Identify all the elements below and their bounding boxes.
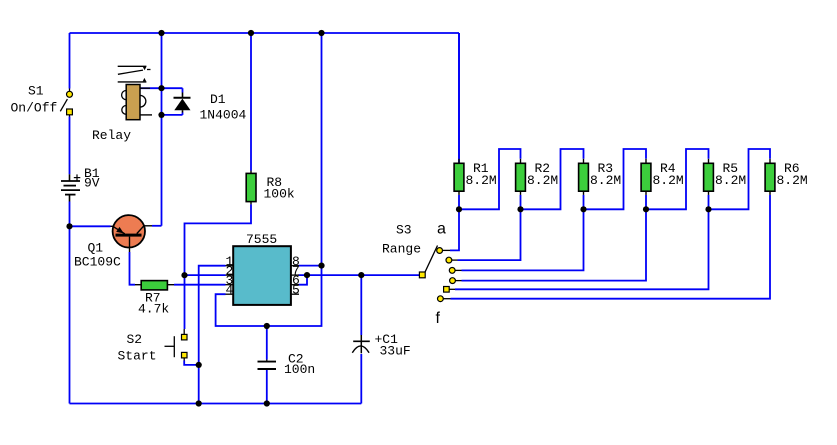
svg-text:BC109C: BC109C: [74, 255, 121, 270]
svg-text:9V: 9V: [84, 176, 100, 191]
svg-text:8.2M: 8.2M: [466, 173, 497, 188]
svg-text:8.2M: 8.2M: [777, 173, 808, 188]
svg-text:8.2M: 8.2M: [715, 173, 746, 188]
svg-text:8.2M: 8.2M: [590, 173, 621, 188]
svg-text:8.2M: 8.2M: [527, 173, 558, 188]
svg-text:Start: Start: [118, 349, 157, 364]
svg-text:Relay: Relay: [92, 128, 131, 143]
svg-text:100n: 100n: [284, 362, 315, 377]
svg-text:5: 5: [292, 283, 300, 298]
svg-text:Range: Range: [382, 242, 421, 257]
svg-text:a: a: [437, 221, 446, 238]
svg-text:f: f: [436, 310, 441, 327]
svg-text:7555: 7555: [246, 232, 277, 247]
svg-text:Q1: Q1: [88, 241, 104, 256]
svg-text:D1: D1: [210, 92, 226, 107]
svg-text:8.2M: 8.2M: [653, 173, 684, 188]
svg-text:100k: 100k: [264, 187, 295, 202]
svg-text:33uF: 33uF: [380, 344, 411, 359]
svg-text:4: 4: [226, 283, 234, 298]
svg-text:1N4004: 1N4004: [200, 108, 247, 123]
svg-text:S2: S2: [127, 332, 143, 347]
svg-text:On/Off: On/Off: [11, 101, 58, 116]
svg-text:S3: S3: [396, 223, 412, 238]
svg-text:S1: S1: [28, 84, 44, 99]
svg-text:4.7k: 4.7k: [138, 302, 169, 317]
